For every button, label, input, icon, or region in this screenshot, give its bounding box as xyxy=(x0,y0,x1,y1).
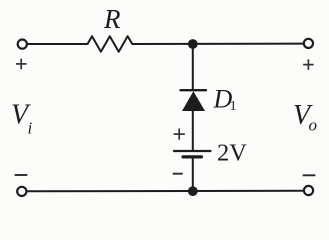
svg-text:o: o xyxy=(309,116,318,135)
svg-text:i: i xyxy=(28,119,33,138)
svg-text:2V: 2V xyxy=(217,140,247,167)
svg-text:1: 1 xyxy=(230,98,237,113)
svg-text:R: R xyxy=(103,4,121,34)
